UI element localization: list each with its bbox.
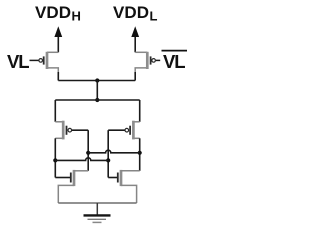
pmos MP2 (VDDL pass transistor)	[135, 52, 155, 74]
supply arrow VDDH	[54, 26, 62, 52]
wire latch supply rail horizontal	[55, 99, 139, 101]
nmos MN1 (left latch nmos)	[58, 170, 88, 203]
wire common node A horizontal	[58, 80, 135, 82]
pmos MP1 (VDDH pass transistor)	[39, 52, 58, 74]
junction dot x108 lower horizontal	[106, 158, 110, 162]
pmos MP4 (right latch pmos)	[125, 121, 140, 140]
wire gate of MP4 to node x108	[108, 129, 125, 131]
wire left latch branch down to pmos MP3	[54, 100, 56, 122]
junction dot node R	[138, 151, 142, 155]
wire gate of MP3 to node x88	[72, 129, 88, 131]
supply label VDDL	[113, 3, 158, 24]
svg-text:H: H	[72, 9, 81, 24]
junction dot latch supply rail	[95, 98, 99, 102]
wire VL-bar to gate of right pass pmos	[156, 59, 160, 61]
pmos MP3 (left latch pmos)	[55, 121, 71, 140]
nmos MN2 (right latch nmos)	[118, 170, 140, 203]
wire right latch branch down to pmos MP4	[139, 100, 141, 122]
junction dot node L	[53, 158, 57, 162]
wire gate lead of nmos MN1	[55, 177, 70, 179]
wire lower cross horizontal with hop over x88	[55, 158, 108, 161]
wire ground stem	[96, 203, 98, 215]
wire cross-coupling vertical x108	[107, 130, 109, 177]
input label VL-bar with overline	[162, 51, 188, 72]
wire upper cross horizontal with hop over x108	[88, 150, 140, 153]
svg-text:VDD: VDD	[35, 3, 71, 22]
wire drain of right pass pmos down	[134, 72, 136, 81]
svg-text:L: L	[18, 51, 29, 72]
supply arrow VDDL	[131, 26, 139, 52]
wire node A to latch supply rail	[96, 81, 98, 101]
svg-text:L: L	[174, 51, 185, 72]
wire VL to gate of left pass pmos	[30, 59, 39, 61]
svg-text:L: L	[150, 9, 158, 24]
svg-text:VDD: VDD	[113, 3, 149, 22]
wire ground rail	[58, 202, 136, 204]
input label VL	[7, 51, 30, 72]
ground symbol	[84, 215, 111, 222]
supply label VDDH	[35, 3, 81, 24]
wire gate lead of nmos MN2	[108, 177, 117, 179]
wire node L vertical (drain MP3 down)	[54, 138, 56, 177]
wire node R vertical (drain MP4 down)	[139, 138, 141, 171]
junction dot node A	[95, 78, 99, 82]
junction dot x88 upper horizontal	[86, 151, 90, 155]
wire drain of left pass pmos down	[57, 72, 59, 81]
wire cross-coupling vertical x88	[87, 130, 89, 171]
